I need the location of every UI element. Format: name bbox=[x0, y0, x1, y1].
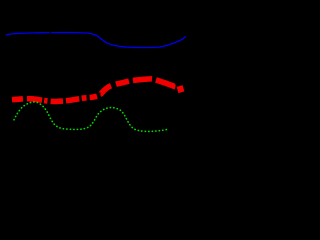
red dashed curve bbox=[12, 79, 176, 102]
green dotted curve bbox=[14, 102, 167, 131]
black gap carve before red end blob bbox=[175, 83, 178, 90]
blue solid curve bbox=[6, 33, 186, 48]
chart background bbox=[0, 0, 186, 162]
red curve end blob bbox=[180, 86, 182, 92]
black gap carve before rising red dash bbox=[97, 93, 100, 101]
tiny gap in blue curve at x=50 bbox=[49, 31, 51, 34]
